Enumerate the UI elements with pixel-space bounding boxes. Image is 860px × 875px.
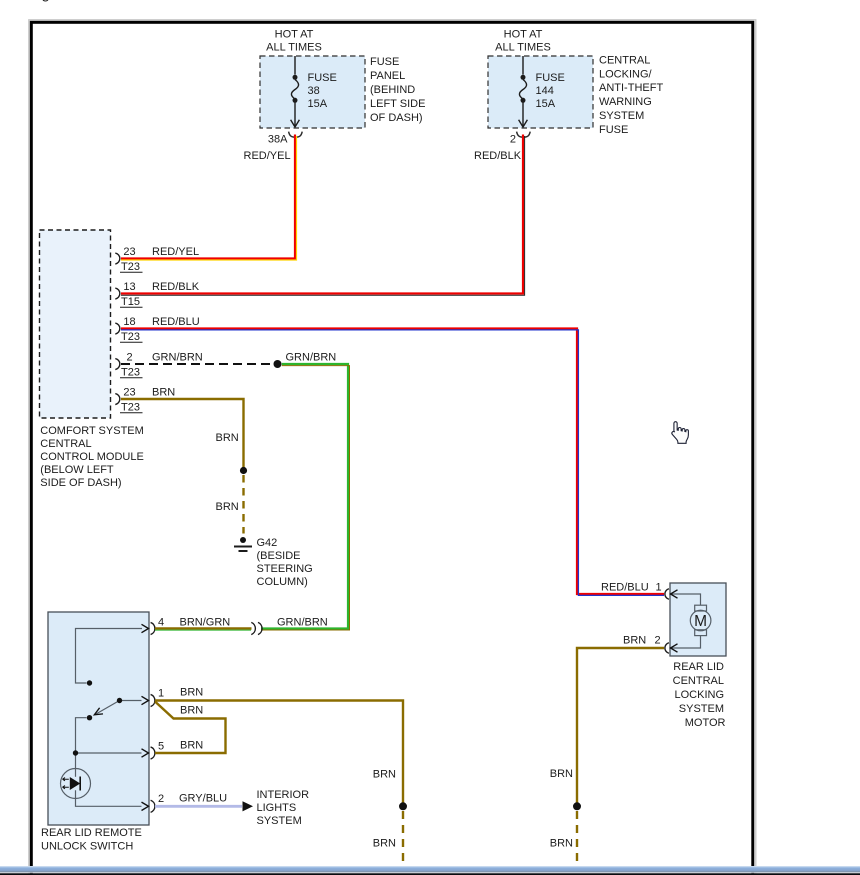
svg-text:OF DASH): OF DASH) bbox=[370, 112, 423, 124]
svg-text:GRY/BLU: GRY/BLU bbox=[179, 793, 227, 805]
svg-text:2: 2 bbox=[654, 635, 660, 647]
svg-text:GRN/BRN: GRN/BRN bbox=[286, 352, 337, 364]
svg-text:HOT AT: HOT AT bbox=[275, 29, 314, 41]
svg-text:T23: T23 bbox=[121, 331, 140, 343]
svg-text:23: 23 bbox=[123, 246, 135, 258]
svg-text:CENTRAL: CENTRAL bbox=[673, 675, 724, 687]
svg-text:REAR LID REMOTE: REAR LID REMOTE bbox=[41, 827, 142, 839]
svg-text:BRN: BRN bbox=[373, 769, 396, 781]
svg-text:ALL TIMES: ALL TIMES bbox=[495, 42, 551, 54]
svg-text:BRN: BRN bbox=[623, 635, 646, 647]
svg-text:SYSTEM: SYSTEM bbox=[257, 815, 302, 827]
svg-text:15A: 15A bbox=[308, 98, 328, 110]
svg-text:WARNING: WARNING bbox=[599, 96, 652, 108]
svg-text:FUSE: FUSE bbox=[308, 72, 337, 84]
svg-text:2: 2 bbox=[126, 352, 132, 364]
svg-text:T23: T23 bbox=[121, 402, 140, 414]
svg-text:PANEL: PANEL bbox=[370, 70, 405, 82]
svg-text:(BELOW LEFT: (BELOW LEFT bbox=[40, 464, 114, 476]
svg-text:CENTRAL: CENTRAL bbox=[40, 438, 91, 450]
svg-text:REAR LID: REAR LID bbox=[673, 661, 724, 673]
svg-text:BRN/GRN: BRN/GRN bbox=[180, 617, 231, 629]
svg-text:g: g bbox=[42, 0, 50, 3]
svg-text:BRN: BRN bbox=[550, 838, 573, 850]
svg-text:RED/BLU: RED/BLU bbox=[601, 582, 649, 594]
svg-text:CENTRAL: CENTRAL bbox=[599, 54, 650, 66]
svg-text:2: 2 bbox=[158, 793, 164, 805]
svg-text:STEERING: STEERING bbox=[257, 563, 313, 575]
svg-text:BRN: BRN bbox=[216, 501, 239, 513]
svg-text:ANTI-THEFT: ANTI-THEFT bbox=[599, 82, 663, 94]
svg-text:LOCKING/: LOCKING/ bbox=[599, 68, 653, 80]
svg-text:BRN: BRN bbox=[152, 387, 175, 399]
svg-text:SYSTEM: SYSTEM bbox=[679, 703, 724, 715]
svg-text:RED/YEL: RED/YEL bbox=[152, 246, 199, 258]
svg-text:1: 1 bbox=[158, 688, 164, 700]
svg-text:LIGHTS: LIGHTS bbox=[257, 802, 297, 814]
svg-text:13: 13 bbox=[123, 281, 135, 293]
svg-text:RED/BLU: RED/BLU bbox=[152, 316, 200, 328]
svg-text:38A: 38A bbox=[268, 134, 288, 146]
svg-text:GRN/BRN: GRN/BRN bbox=[152, 352, 203, 364]
svg-text:2: 2 bbox=[510, 134, 516, 146]
svg-text:MOTOR: MOTOR bbox=[685, 717, 726, 729]
svg-text:COLUMN): COLUMN) bbox=[257, 576, 308, 588]
svg-text:FUSE: FUSE bbox=[599, 124, 628, 136]
svg-text:GRN/BRN: GRN/BRN bbox=[277, 617, 328, 629]
svg-text:UNLOCK SWITCH: UNLOCK SWITCH bbox=[41, 841, 133, 853]
svg-text:RED/BLK: RED/BLK bbox=[152, 281, 200, 293]
svg-text:SIDE OF DASH): SIDE OF DASH) bbox=[40, 477, 121, 489]
svg-text:T23: T23 bbox=[121, 367, 140, 379]
svg-text:ALL TIMES: ALL TIMES bbox=[266, 42, 322, 54]
svg-text:COMFORT SYSTEM: COMFORT SYSTEM bbox=[40, 425, 144, 437]
svg-text:RED/BLK: RED/BLK bbox=[474, 150, 522, 162]
svg-text:15A: 15A bbox=[536, 98, 556, 110]
svg-text:RED/YEL: RED/YEL bbox=[244, 150, 291, 162]
svg-text:38: 38 bbox=[308, 85, 320, 97]
svg-text:(BESIDE: (BESIDE bbox=[257, 550, 301, 562]
svg-text:M: M bbox=[694, 613, 707, 630]
svg-text:BRN: BRN bbox=[180, 740, 203, 752]
svg-text:T15: T15 bbox=[121, 296, 140, 308]
svg-text:FUSE: FUSE bbox=[370, 56, 399, 68]
svg-text:5: 5 bbox=[158, 741, 164, 753]
svg-text:INTERIOR: INTERIOR bbox=[257, 789, 310, 801]
svg-text:BRN: BRN bbox=[216, 432, 239, 444]
svg-text:BRN: BRN bbox=[180, 705, 203, 717]
svg-text:(BEHIND: (BEHIND bbox=[370, 84, 415, 96]
svg-text:G42: G42 bbox=[257, 537, 278, 549]
svg-text:HOT AT: HOT AT bbox=[504, 29, 543, 41]
svg-text:CONTROL MODULE: CONTROL MODULE bbox=[40, 451, 144, 463]
svg-text:23: 23 bbox=[123, 387, 135, 399]
svg-text:BRN: BRN bbox=[373, 838, 396, 850]
svg-text:LEFT SIDE: LEFT SIDE bbox=[370, 98, 425, 110]
svg-text:SYSTEM: SYSTEM bbox=[599, 110, 644, 122]
svg-text:144: 144 bbox=[536, 85, 554, 97]
svg-text:4: 4 bbox=[158, 617, 164, 629]
svg-text:18: 18 bbox=[123, 316, 135, 328]
svg-text:FUSE: FUSE bbox=[536, 72, 565, 84]
svg-text:BRN: BRN bbox=[550, 768, 573, 780]
svg-text:T23: T23 bbox=[121, 261, 140, 273]
svg-text:LOCKING: LOCKING bbox=[674, 689, 724, 701]
svg-text:BRN: BRN bbox=[180, 687, 203, 699]
svg-text:1: 1 bbox=[655, 582, 661, 594]
